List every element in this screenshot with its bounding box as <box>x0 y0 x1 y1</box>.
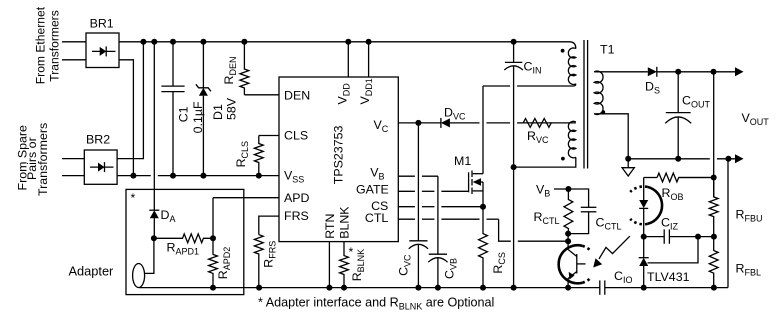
label TPS23753 <box>332 126 346 185</box>
wire VOUT minus <box>628 158 735 160</box>
junction RTN pin / rail <box>326 285 332 291</box>
label RBLNK with asterisk <box>349 245 367 281</box>
resistor RCLS <box>254 136 263 176</box>
junction VB node / RCTL <box>565 186 571 192</box>
wire DEN pin <box>244 94 279 96</box>
junction TLV431 anode / rail <box>641 285 647 291</box>
pin label APD <box>284 191 310 205</box>
junction RBLNK / rail <box>341 285 347 291</box>
wire CTL route down and right <box>499 219 568 241</box>
diode DS <box>648 67 657 77</box>
svg-text:BLNK: BLNK <box>338 206 352 239</box>
pin label VB <box>370 166 384 182</box>
wire DVC to RVC with crossover gaps <box>450 122 523 124</box>
capacitor CVC <box>409 241 428 249</box>
pin label FRS <box>284 209 309 223</box>
junction VOUT minus / ground <box>625 156 631 162</box>
svg-text:D1: D1 <box>211 104 225 120</box>
junction top rail / C1 <box>170 39 176 45</box>
ground secondary <box>622 159 634 176</box>
junction RCTL bottom / CCTL <box>565 231 571 237</box>
diode DVC <box>441 118 450 128</box>
junction top rail / D1 <box>200 39 206 45</box>
capacitor CVB <box>428 254 447 262</box>
svg-text:CVC: CVC <box>397 254 413 276</box>
svg-text:DS: DS <box>645 80 660 96</box>
wire VDD pin <box>347 42 349 77</box>
wire aux winding return <box>514 157 576 167</box>
zener diode D1 58V <box>196 84 211 96</box>
svg-text:Transformers: Transformers <box>48 10 62 81</box>
svg-text:DEN: DEN <box>284 89 310 103</box>
label CVB <box>443 258 459 279</box>
junction ROB / divider line <box>711 175 717 181</box>
svg-text:T1: T1 <box>600 43 615 57</box>
junction RFRS / RTN rail <box>256 285 262 291</box>
label RFBU <box>736 208 763 224</box>
resistor RCS <box>479 207 488 288</box>
wire RTN rail <box>139 287 728 289</box>
pin label VDD1 <box>358 78 374 104</box>
adapter box <box>126 189 244 294</box>
svg-text:VB: VB <box>370 166 384 182</box>
wire BR2 positive output up to top rail <box>117 42 143 159</box>
wire BR1 input top <box>62 41 86 43</box>
wire primary bottom to M1 drain <box>483 84 576 86</box>
wire connector to DA line <box>145 238 154 273</box>
wire secondary bottom <box>594 114 628 159</box>
label BR2 <box>86 133 110 147</box>
wire ROB <box>644 177 657 179</box>
label CCTL <box>596 216 622 232</box>
wire ROB right <box>679 177 714 179</box>
wire D1 <box>202 42 204 176</box>
opto LED package arc <box>630 186 662 224</box>
wire VB node <box>554 188 568 190</box>
junction CVB / rail <box>435 285 441 291</box>
svg-text:FRS: FRS <box>284 209 309 223</box>
label RCS <box>491 252 507 273</box>
wire VC junction to DVC <box>418 122 441 124</box>
label M1 <box>454 154 471 168</box>
svg-text:RFBU: RFBU <box>736 208 763 224</box>
wire RTN pin to rail <box>328 242 330 288</box>
pin label GATE <box>356 182 389 196</box>
label ROB <box>662 186 684 202</box>
wire VSS rail <box>117 175 279 177</box>
capacitor CIO <box>600 280 605 294</box>
svg-text:ROB: ROB <box>662 186 684 202</box>
resistor RFBU <box>709 178 718 237</box>
wire RVC to aux winding <box>551 122 576 124</box>
arrow optocoupler light <box>593 236 630 267</box>
transformer T1 core <box>584 40 588 169</box>
capacitor C1 <box>161 86 184 92</box>
wire CS pin with gaps <box>398 206 483 208</box>
opto phototransistor Q <box>568 241 585 287</box>
arrow VOUT plus <box>735 67 744 76</box>
pin label BLNK <box>338 206 352 239</box>
junction CIZ wire / divider <box>711 234 717 240</box>
label C1 0.1uF <box>177 101 206 133</box>
junction top rail / CIN <box>511 39 517 45</box>
opto LED DLED <box>639 178 648 237</box>
wire GATE pin with gaps <box>398 190 468 192</box>
svg-text:CLS: CLS <box>284 129 308 143</box>
svg-text:*: * <box>349 245 354 259</box>
label CIZ <box>661 216 678 232</box>
svg-text:APD: APD <box>284 191 310 205</box>
junction top rail / RDEN <box>241 39 247 45</box>
transformer T1 secondary winding <box>594 71 603 114</box>
wire top VDD rail <box>119 41 570 43</box>
svg-text:Adapter: Adapter <box>69 264 115 279</box>
label COUT <box>682 94 710 110</box>
junction VSS rail / C1 <box>170 173 176 179</box>
label RFBL <box>736 262 761 278</box>
svg-text:CIO: CIO <box>614 269 632 285</box>
junction CIN / aux return <box>511 164 517 170</box>
resistor RCTL <box>564 189 573 234</box>
resistor RAPD1 <box>154 234 213 243</box>
svg-text:CTL: CTL <box>365 211 389 225</box>
label RFRS <box>262 241 278 268</box>
label CIN <box>524 60 542 76</box>
svg-text:CVB: CVB <box>443 258 459 279</box>
resistor RFRS <box>254 235 263 288</box>
label CIO <box>614 269 632 285</box>
wire RCTL bottom to CTL node <box>567 234 569 242</box>
wire APD node up <box>212 198 214 239</box>
junction top rail / DA line <box>151 39 157 45</box>
svg-text:CIN: CIN <box>524 60 542 76</box>
wire VOUT plus <box>657 71 735 73</box>
label RAPD2 <box>216 247 232 279</box>
wire VB node to CCTL <box>568 189 588 207</box>
junction top rail / VDD1 pin <box>366 39 372 45</box>
pin label VSS <box>284 169 304 185</box>
junction VSS rail / RCLS <box>256 173 262 179</box>
wire CIZ <box>644 236 714 238</box>
pin label CS <box>371 199 388 213</box>
svg-text:VC: VC <box>374 118 389 134</box>
phase dot secondary <box>601 110 605 114</box>
capacitor CIN <box>504 62 523 70</box>
pin label CLS <box>284 129 308 143</box>
wire APD pin <box>213 197 279 199</box>
wire top rail corner into primary <box>570 42 576 49</box>
wire RTN rail riser to VOUT minus <box>727 159 729 288</box>
wire CIN line <box>513 42 515 288</box>
arrow VOUT minus <box>735 154 744 163</box>
resistor RVC <box>523 119 551 128</box>
svg-text:RCS: RCS <box>491 252 507 273</box>
label RAPD1 <box>167 241 199 257</box>
input label From Spare Pairs or Transformers <box>16 123 51 196</box>
phase dot primary <box>561 49 565 53</box>
transistor M1 <box>469 86 483 207</box>
label CVC <box>397 254 413 276</box>
pin label RTN <box>323 214 337 239</box>
label RVC <box>527 129 549 145</box>
junction RAPD2 / RTN rail <box>210 285 216 291</box>
junction VSS rail / D1 <box>200 173 206 179</box>
wire secondary top to DS <box>594 71 648 73</box>
wire top rail to DA <box>153 42 155 210</box>
junction opto emitter / rail <box>565 285 571 291</box>
junction VOUT plus / divider <box>711 69 717 75</box>
junction RAPD1 / RAPD2 <box>210 235 216 241</box>
svg-text:DVC: DVC <box>444 106 466 122</box>
svg-text:VB: VB <box>536 183 550 199</box>
label BR1 <box>90 17 114 31</box>
junction CIZ wire / ref branch <box>695 234 701 240</box>
resistor RDEN <box>240 42 249 95</box>
wire CVC line <box>417 123 419 288</box>
svg-text:*: * <box>131 191 136 205</box>
junction LED cathode / CIZ wire <box>641 234 647 240</box>
svg-text:RCLS: RCLS <box>234 141 250 167</box>
svg-text:COUT: COUT <box>682 94 710 110</box>
opto transistor package arc <box>559 245 591 283</box>
junction DA anode / RAPD1 <box>151 235 157 241</box>
resistor RAPD2 <box>209 238 218 287</box>
label VB node <box>536 183 550 199</box>
svg-text:RVC: RVC <box>527 129 549 145</box>
resistor ROB <box>657 173 714 182</box>
label D1 58V <box>211 97 239 120</box>
wire CTL pin with gaps <box>398 218 498 220</box>
junction VOUT plus / COUT <box>675 69 681 75</box>
wire VC pin to junction <box>398 122 418 124</box>
svg-text:BR1: BR1 <box>90 17 114 31</box>
junction RFBL / rail <box>711 285 717 291</box>
junction M1 source / CS / RCS <box>480 204 486 210</box>
junction VOUT minus / COUT <box>675 156 681 162</box>
wire COUT line <box>677 72 679 159</box>
junction CIN / rail <box>511 285 517 291</box>
bridge rectifier BR2 <box>84 150 117 184</box>
transformer T1 primary winding <box>568 48 575 84</box>
svg-text:TPS23753: TPS23753 <box>332 126 346 185</box>
junction VC node <box>415 120 421 126</box>
pin label VDD <box>336 83 352 105</box>
label VOUT <box>742 111 770 127</box>
resistor RBLNK <box>340 242 349 288</box>
capacitor CIZ <box>664 229 669 243</box>
svg-text:DA: DA <box>161 208 176 224</box>
pin label CTL <box>365 211 389 225</box>
capacitor CCTL <box>581 207 597 212</box>
pin label VC <box>374 118 389 134</box>
label DA <box>161 208 176 224</box>
phase dot aux <box>561 157 565 161</box>
junction CTL node / opto collector <box>565 238 571 244</box>
wire VDD1 pin <box>368 42 370 77</box>
svg-text:58V: 58V <box>225 97 239 120</box>
svg-text:CIZ: CIZ <box>661 216 678 232</box>
svg-text:RFBL: RFBL <box>736 262 761 278</box>
svg-text:VDD1: VDD1 <box>358 78 374 104</box>
svg-text:RDEN: RDEN <box>222 57 238 85</box>
label TLV431 <box>647 270 690 284</box>
bridge rectifier BR1 <box>86 33 119 68</box>
svg-text:M1: M1 <box>454 154 471 168</box>
wire BR1 negative output to VSS rail <box>119 60 133 176</box>
svg-text:From Ethernet: From Ethernet <box>33 6 47 84</box>
note optional components <box>258 295 494 311</box>
label RDEN <box>222 57 238 85</box>
label RCTL <box>534 210 560 226</box>
junction RCS / rail <box>480 285 486 291</box>
junction VOUT minus / rail riser <box>725 156 731 162</box>
svg-text:RCTL: RCTL <box>534 210 560 226</box>
svg-text:C1: C1 <box>177 106 191 122</box>
IC U1 TPS23753 body <box>279 77 398 242</box>
svg-text:RFRS: RFRS <box>262 241 278 268</box>
wire VB pin <box>398 176 438 254</box>
label Adapter <box>69 264 115 279</box>
label DVC <box>444 106 466 122</box>
wire divider top <box>713 72 715 197</box>
svg-text:BR2: BR2 <box>86 133 110 147</box>
capacitor COUT <box>665 113 691 124</box>
svg-text:Transformers: Transformers <box>36 123 50 196</box>
svg-text:TLV431: TLV431 <box>647 270 690 284</box>
wire CCTL bottom bracket <box>568 212 589 234</box>
junction VSS rail / BR1 negative <box>130 173 136 179</box>
svg-text:RTN: RTN <box>323 214 337 239</box>
wire C1 <box>172 42 174 176</box>
shunt regulator TLV431 <box>639 237 649 288</box>
label asterisk adapter <box>131 191 136 205</box>
label RCLS <box>234 141 250 167</box>
label T1 <box>600 43 615 57</box>
wire BR1 input bottom <box>62 59 86 61</box>
svg-text:VOUT: VOUT <box>742 111 770 127</box>
wire TLV431 ref <box>648 237 699 263</box>
wire CLS pin <box>259 135 279 137</box>
junction top rail / BR2 <box>140 39 146 45</box>
svg-text:VDD: VDD <box>336 83 352 105</box>
svg-text:GATE: GATE <box>356 182 389 196</box>
svg-text:CCTL: CCTL <box>596 216 622 232</box>
label DS <box>645 80 660 96</box>
wire CVB to rail <box>437 258 439 288</box>
junction CVC / rail <box>415 285 421 291</box>
adapter connector <box>133 264 145 288</box>
svg-text:RAPD2: RAPD2 <box>216 247 232 279</box>
diode DA <box>149 210 159 238</box>
wire BR2 input bottom <box>62 175 84 177</box>
resistor RFBL <box>709 237 718 288</box>
wire BR2 input top <box>62 158 84 160</box>
svg-text:VSS: VSS <box>284 169 304 185</box>
pin label DEN <box>284 89 310 103</box>
svg-text:* Adapter interface and RBLNK: * Adapter interface and RBLNK are Option… <box>258 295 494 311</box>
input label From Ethernet Transformers <box>33 6 61 84</box>
wire FRS pin <box>259 216 279 235</box>
transformer T1 aux winding <box>568 121 575 157</box>
junction top rail / VDD pin <box>345 39 351 45</box>
